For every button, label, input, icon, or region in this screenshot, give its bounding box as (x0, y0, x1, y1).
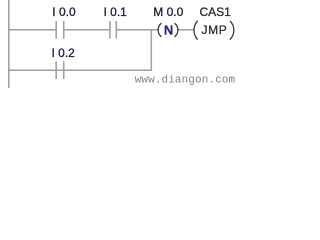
svg-text:M 0.0: M 0.0 (153, 5, 183, 19)
svg-text:I 0.2: I 0.2 (52, 46, 76, 60)
svg-text:I 0.1: I 0.1 (104, 5, 128, 19)
svg-text:N: N (164, 22, 173, 37)
svg-text:CAS1: CAS1 (200, 5, 232, 19)
svg-text:www.diangon.com: www.diangon.com (135, 74, 236, 86)
svg-text:I 0.0: I 0.0 (52, 5, 76, 19)
svg-text:JMP: JMP (202, 23, 228, 37)
